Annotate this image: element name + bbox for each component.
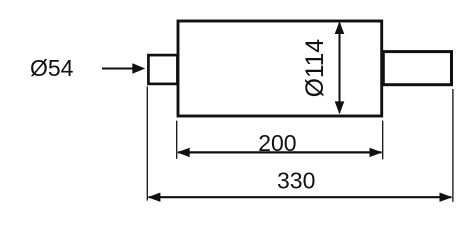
- svg-text:Ø54: Ø54: [30, 55, 74, 81]
- svg-text:200: 200: [258, 130, 296, 156]
- outlet pipe (right): [383, 52, 451, 85]
- svg-text:330: 330: [277, 168, 315, 194]
- extension line right for 200: [382, 121, 384, 160]
- extension line right for 330: [452, 89, 454, 202]
- extension line left for 200: [176, 121, 178, 159]
- dimension line 200: [178, 151, 382, 153]
- dimension line 330: [149, 196, 452, 198]
- leader arrow for Ø54: [102, 68, 134, 70]
- svg-text:Ø114: Ø114: [302, 39, 329, 97]
- dimension line Ø114 (vertical, double arrow): [339, 23, 341, 113]
- extension line left for 330: [146, 86, 148, 200]
- inlet pipe (left): [148, 55, 177, 84]
- muffler body outline: [178, 21, 382, 116]
